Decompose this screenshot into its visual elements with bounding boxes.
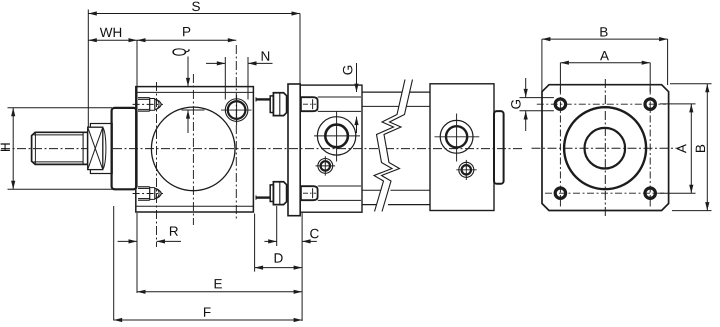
bolt row centerline top (537, 103, 666, 105)
flange view outline (542, 85, 669, 211)
stud bottom (301, 186, 361, 200)
grease fitting bottom (133, 187, 163, 200)
nut bottom N2 (273, 182, 286, 205)
washer top (270, 96, 273, 113)
rear cap block (430, 84, 494, 211)
break symbol (374, 80, 413, 212)
flange bolt hole TL (555, 99, 565, 109)
flange horizontal centerline (532, 147, 680, 149)
main centerline (1, 148, 522, 150)
cylinder tube lines (362, 92, 430, 205)
flange bore circle (585, 128, 626, 169)
left port (314, 111, 360, 162)
stud top (301, 97, 361, 111)
dimension D (255, 214, 303, 272)
dimension WH (88, 28, 137, 43)
head block (136, 87, 254, 212)
dimension G bolt hole (511, 78, 554, 131)
dimension S (88, 2, 300, 127)
rod wrench flats (88, 124, 113, 174)
washer bottom (270, 185, 273, 202)
flange body circle (564, 107, 646, 189)
nut top N1 (273, 93, 286, 116)
dimension F (114, 206, 302, 322)
rear drain plug circle (456, 160, 476, 180)
cushion chord line (182, 109, 205, 111)
tie rod bottom (256, 195, 270, 199)
flange bolt hole BR (645, 188, 655, 198)
flange bolt hole BL (555, 188, 565, 198)
fitting axis centerline (156, 82, 158, 247)
bolt column centerline left (559, 88, 561, 208)
port axis centerline (235, 45, 237, 219)
rear port (435, 114, 480, 162)
cylinder head tube block (300, 85, 362, 212)
dimension Q (172, 48, 190, 133)
dimension P (137, 27, 236, 130)
dimension A right (660, 104, 696, 193)
flange vertical centerline (604, 79, 606, 218)
dimension B right (670, 84, 712, 211)
flange bolt hole TR (645, 99, 655, 109)
dimension R (118, 213, 181, 293)
mounting flange plate (288, 84, 300, 216)
head port boss (221, 95, 252, 125)
head bore circle (151, 107, 235, 191)
grease fitting top (133, 98, 163, 111)
bore axis centerline (192, 74, 194, 225)
bolt column centerline right (649, 88, 651, 208)
tie rod top (256, 97, 270, 101)
dimension H (1, 108, 136, 190)
rear pilot boss (494, 111, 504, 184)
bolt row centerline bottom (545, 192, 667, 194)
left drain plug circle (316, 156, 336, 175)
front cap (112, 108, 137, 189)
dimension E (137, 279, 302, 294)
dimension G left port (343, 63, 359, 133)
dimension A top (560, 51, 650, 92)
dimension B top (542, 27, 668, 91)
piston rod R1 (32, 132, 88, 164)
dimension N (206, 51, 273, 99)
dimension C (264, 206, 318, 246)
